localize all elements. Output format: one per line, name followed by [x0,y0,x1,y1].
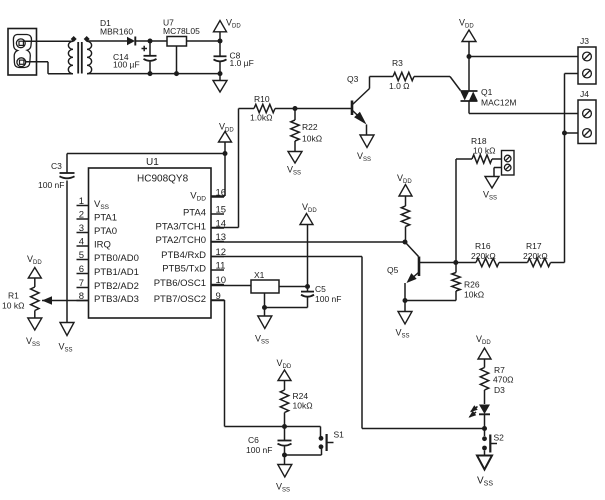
svg-text:IRQ: IRQ [94,240,111,251]
svg-text:S2: S2 [494,433,505,443]
svg-text:100 nF: 100 nF [315,294,341,304]
ground at C3 [59,323,75,354]
svg-text:2: 2 [79,210,84,221]
resistor R7 [480,365,513,404]
svg-text:R10: R10 [254,94,270,104]
wire D1 to U7 [135,39,167,44]
resistor R26 [452,260,484,301]
svg-text:MBR160: MBR160 [100,26,133,36]
power VDD at R7 [476,334,491,368]
triac Q1 [461,57,517,114]
wire connector pin 2 to ground [494,168,502,177]
svg-text:Q5: Q5 [387,265,399,275]
ground at S2 [477,456,493,488]
U1 pin 2 PTA1 [77,210,118,224]
svg-text:15: 15 [216,205,227,216]
U1 pin 12 PTB4/RxD [161,247,226,261]
svg-text:PTB7/OSC2: PTB7/OSC2 [154,294,206,305]
wire J4 pin 2 to R17 riser [562,131,578,263]
svg-text:PTB3/AD3: PTB3/AD3 [94,294,139,305]
microcontroller U1 [89,157,212,318]
svg-text:C3: C3 [51,161,62,171]
U1 pin 10 PTB6/OSC1 [154,275,226,289]
ground supply [213,74,227,92]
U1 pin 13 PTA2/TCH0 [155,232,226,246]
svg-text:100 µF: 100 µF [113,59,140,69]
svg-text:100 nF: 100 nF [38,180,64,190]
transistor Q3 [347,74,393,135]
svg-text:PTA3/TCH1: PTA3/TCH1 [155,222,206,233]
svg-text:10 kΩ: 10 kΩ [473,146,495,156]
svg-text:10: 10 [216,275,227,286]
U1 pin 14 PTA3/TCH1 [155,219,226,233]
svg-text:R3: R3 [392,58,403,68]
wire U7 ground pin [174,46,179,76]
power VDD at R1 [27,254,42,287]
U1 pin 4 IRQ [77,237,111,251]
svg-text:1.0kΩ: 1.0kΩ [250,113,272,123]
svg-text:1.0 µF: 1.0 µF [230,58,254,68]
svg-text:PTB4/RxD: PTB4/RxD [161,250,206,261]
svg-text:Q1: Q1 [481,87,493,97]
node at S2 [482,426,487,431]
wire pin 13 to Q5 collector node [211,240,408,245]
svg-text:HC908QY8: HC908QY8 [137,174,189,185]
ground at R22 [287,152,302,177]
regulator U7 [163,18,200,47]
ground at connector [483,177,499,202]
svg-text:R1: R1 [8,291,19,301]
svg-text:D3: D3 [494,385,505,395]
svg-text:6: 6 [79,264,84,275]
wire pin 10 to X1 [211,285,251,287]
U1 pin 9 PTB7/OSC2 [154,291,224,305]
U1 pin 11 PTB5/TxD [162,261,225,275]
ground at C6 [276,455,292,494]
capacitor C14 [113,41,157,76]
resistor R18 [456,136,502,163]
wire pin 9 to R24 node [211,300,321,427]
svg-text:PTA1: PTA1 [94,213,117,224]
diode D1 [100,18,135,46]
wire R10 to Q3 base [275,106,352,111]
svg-text:R24: R24 [293,391,309,401]
crystal X1 [251,270,279,293]
svg-text:220kΩ: 220kΩ [471,251,496,261]
wire U7 to VDD node [187,39,223,44]
resistor R10 [250,94,275,123]
wire J3 pin 2 riser [565,74,579,134]
transistor Q5 [387,242,456,301]
wire VDD rail to pin 16 [67,151,228,196]
U1 pin 5 PTB0/AD0 [77,250,139,264]
power VDD at X1 [300,202,317,287]
connector J3 [578,36,596,84]
svg-text:PTB5/TxD: PTB5/TxD [162,264,206,275]
wire pin 14 riser to R10 [211,109,254,228]
svg-text:7: 7 [79,278,84,289]
power VDD supply output [214,18,242,42]
U1 pin 6 PTB1/AD1 [77,264,139,278]
svg-text:470Ω: 470Ω [493,375,514,385]
svg-text:X1: X1 [254,270,265,280]
svg-text:J4: J4 [580,89,589,99]
wire pin 12 to S2 node [211,257,485,429]
svg-text:1.0 Ω: 1.0 Ω [389,81,410,91]
svg-text:R26: R26 [464,280,480,290]
svg-text:S1: S1 [334,430,345,440]
svg-text:PTB0/AD0: PTB0/AD0 [94,253,139,264]
svg-text:5: 5 [79,250,84,261]
wire X1 and C5 to ground node [262,293,308,310]
AC inlet connector [8,29,37,76]
wire C6 to S1 bottom [285,449,322,455]
switch S1 [319,427,345,452]
U1 pin 15 PTA4 [183,205,226,219]
capacitor C8 [214,41,254,76]
ground at Q5 [396,301,413,340]
svg-text:J3: J3 [580,36,589,46]
svg-text:U1: U1 [146,157,159,168]
svg-text:C6: C6 [248,435,259,445]
svg-text:10kΩ: 10kΩ [464,290,484,300]
U1 pin 1 VSS [77,196,110,211]
U1 pin 3 PTA0 [77,223,118,237]
svg-text:3: 3 [79,223,84,234]
LED D3 [469,405,491,429]
resistor R22 [291,109,322,152]
svg-text:PTB6/OSC1: PTB6/OSC1 [154,278,206,289]
connector at R18 [502,151,515,176]
power VDD at U1 [219,122,235,154]
wire R3 to Q1 gate [414,77,461,91]
svg-text:PTB2/AD2: PTB2/AD2 [94,281,139,292]
svg-text:C5: C5 [315,284,326,294]
resistor R24 [280,390,312,429]
U1 pin 7 PTB2/AD2 [77,278,139,292]
svg-text:10kΩ: 10kΩ [302,134,322,144]
wire Q1 to J4 pin 1 [469,113,578,115]
potentiometer R1 [2,287,52,318]
capacitor C6 [246,427,292,458]
ground at X1 [255,308,272,346]
power VDD at Q5 [397,173,412,206]
resistor R17 [499,241,565,267]
svg-text:PTA4: PTA4 [183,208,206,219]
wire transformer secondary bottom rail [87,73,220,75]
svg-text:11: 11 [216,261,226,272]
svg-text:10kΩ: 10kΩ [293,401,313,411]
svg-text:Q3: Q3 [347,74,359,84]
wire Q5 emitter to R26 [403,298,457,303]
svg-text:PTA0: PTA0 [94,226,117,237]
svg-text:100 nF: 100 nF [246,445,272,455]
resistor R3 [389,58,414,91]
svg-text:MC78L05: MC78L05 [163,26,200,36]
wire X1 to C5 node [279,284,310,289]
svg-text:MAC12M: MAC12M [481,98,516,108]
svg-text:16: 16 [216,188,227,199]
U1 pin 16 VDD [190,188,226,203]
svg-text:R7: R7 [494,365,505,375]
pullup resistor at Q5 [401,206,409,242]
svg-text:1: 1 [79,196,84,207]
svg-text:4: 4 [79,237,84,248]
svg-text:PTA2/TCH0: PTA2/TCH0 [155,235,206,246]
capacitor C3 [38,154,75,323]
switch S2 [482,429,504,456]
svg-text:R22: R22 [302,122,318,132]
svg-text:220kΩ: 220kΩ [523,251,548,261]
power VDD at R24 [277,358,292,390]
ground at R1 [26,318,42,348]
svg-text:10 kΩ: 10 kΩ [2,301,24,311]
svg-text:R18: R18 [471,136,487,146]
power VDD at Q1 [459,18,476,57]
wire R1 wiper to pin 8 [42,300,89,302]
connector J4 [578,89,596,144]
wire R18 riser to divider [455,159,457,263]
wire Q1 node to J3 pin 1 [467,54,579,59]
U1 pin 8 PTB3/AD3 [77,291,139,305]
svg-text:R17: R17 [526,241,542,251]
wire plug to transformer [23,41,73,74]
resistor R16 [456,241,499,267]
svg-text:R16: R16 [475,241,491,251]
svg-text:PTB1/AD1: PTB1/AD1 [94,267,139,278]
ground at Q3 [357,135,374,163]
transformer [68,36,91,74]
wire transformer secondary top [87,40,127,42]
capacitor C5 [301,284,341,308]
